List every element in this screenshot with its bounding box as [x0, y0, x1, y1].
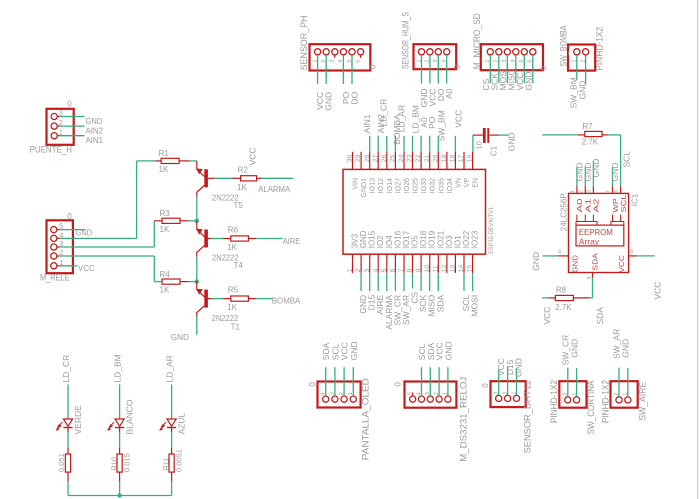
node B junction	[195, 279, 199, 283]
pin 6 IC1 stub	[620, 187, 622, 194]
wire ESP32 bottom SCK	[420, 273, 422, 291]
pin 16 ESP32 top stub	[472, 152, 474, 170]
wire M_DS3231_RELOJ VCC	[438, 367, 440, 396]
svg-text:2: 2	[579, 190, 585, 193]
svg-text:0: 0	[308, 382, 317, 387]
wire SENSOR_HUM_S A0	[446, 55, 448, 84]
svg-text:VCC: VCC	[454, 110, 464, 128]
svg-text:SCL: SCL	[619, 195, 628, 213]
lead LED BLANCO	[119, 428, 121, 433]
svg-text:PINHD-1X2: PINHD-1X2	[601, 380, 611, 423]
pin 15 ESP32 bottom stub	[472, 254, 474, 273]
svg-text:M_DS3231_RELOJ: M_DS3231_RELOJ	[458, 377, 468, 462]
svg-text:PINHD-1X2: PINHD-1X2	[595, 27, 605, 71]
lead resistor VERDE	[67, 472, 69, 482]
svg-text:SDA: SDA	[435, 294, 445, 312]
wire IC1 pin5 SDA	[592, 278, 594, 298]
pin lead SCL IC1	[620, 215, 622, 222]
svg-text:IO27: IO27	[395, 178, 402, 193]
wire IC1 pin8 VCC	[637, 255, 655, 257]
wire SW_BOMBA pin1	[576, 55, 578, 80]
wire ESP32 bottom SW_CR	[394, 273, 396, 291]
connector SW_CORTINA	[559, 381, 586, 408]
svg-text:1K: 1K	[160, 225, 170, 234]
pin lead A2 IC1	[592, 215, 594, 222]
resistor R10	[117, 454, 122, 472]
svg-text:2N2222: 2N2222	[212, 314, 239, 323]
lead resistor BLANCO	[119, 472, 121, 482]
svg-text:T4: T4	[234, 261, 244, 270]
wire to R7	[542, 134, 578, 136]
svg-text:PUENTE_H: PUENTE_H	[30, 145, 73, 155]
wire R7 to SCL corner	[608, 134, 621, 136]
wire GND IC1 pin 3	[592, 161, 594, 187]
pin 26 ESP32 top stub	[386, 152, 388, 170]
wire T1 emitter to GND	[196, 317, 198, 335]
pin lead WP IC1	[612, 215, 614, 222]
wire ESP32 bottom ALARMA	[386, 273, 388, 291]
resistor R6	[223, 238, 231, 240]
wire R3 to node	[189, 220, 197, 222]
transistor T1	[204, 290, 208, 308]
svg-text:GND: GND	[621, 339, 631, 358]
svg-text:SW_BOMBA: SW_BOMBA	[559, 25, 569, 66]
wire M_RELE pin2 down to R4	[153, 256, 155, 282]
svg-text:0: 0	[67, 212, 72, 221]
pin lead A1 IC1	[584, 215, 586, 222]
wire GND IC1 pin 1	[576, 167, 578, 187]
svg-text:VIN: VIN	[353, 178, 360, 190]
resistor R11	[169, 454, 174, 472]
wire SW_BOMBA pin2	[585, 55, 587, 84]
pin 18 ESP32 top stub	[454, 152, 456, 170]
eeprom inner box	[576, 225, 624, 246]
svg-text:BLANCO: BLANCO	[125, 399, 135, 434]
wire to R1	[137, 160, 156, 162]
wire SW_AIRE pin2	[618, 368, 620, 397]
svg-text:A2: A2	[592, 199, 601, 213]
svg-text:14: 14	[458, 265, 465, 273]
pin 7 ESP32 bottom stub	[403, 254, 405, 273]
connector SENSOR_PH	[310, 44, 371, 70]
pin 3 IC1 stub	[592, 187, 594, 194]
wire M_MICRO_SD CS	[489, 55, 491, 83]
node A junction	[195, 219, 199, 223]
svg-text:SENSOR_PH: SENSOR_PH	[299, 16, 309, 71]
svg-text:EEPROM: EEPROM	[579, 227, 613, 237]
svg-text:26: 26	[381, 154, 388, 162]
connector PANTALLA_OLED	[318, 382, 361, 408]
svg-text:LD_BM: LD_BM	[113, 354, 123, 382]
wire ESP32 top LD_CR	[386, 136, 388, 152]
svg-text:C1: C1	[490, 145, 499, 156]
svg-text:AIRE: AIRE	[283, 236, 301, 246]
svg-text:IO35: IO35	[438, 178, 445, 193]
svg-text:29: 29	[355, 154, 362, 162]
svg-text:GND: GND	[610, 163, 620, 182]
pin 3 ESP32 bottom stub	[369, 254, 371, 273]
svg-text:M_RELE: M_RELE	[40, 273, 70, 283]
svg-text:22: 22	[415, 154, 422, 162]
svg-text:0.051: 0.051	[57, 453, 66, 472]
svg-text:IO33: IO33	[421, 178, 428, 193]
ic IC1 24LC256P box	[569, 193, 629, 272]
wire M_RELE pin4 up to R1	[136, 161, 138, 239]
junction LED common	[117, 493, 121, 497]
resistor R3	[154, 220, 162, 222]
svg-text:IO25: IO25	[413, 178, 420, 193]
pin 12 ESP32 bottom stub	[446, 254, 448, 273]
wire T4 base	[211, 238, 223, 240]
svg-text:IO32: IO32	[430, 178, 437, 193]
svg-text:SDA: SDA	[595, 307, 605, 325]
pin 8 ESP32 bottom stub	[412, 254, 414, 273]
svg-text:AZUL: AZUL	[177, 413, 187, 435]
svg-text:0: 0	[481, 383, 490, 388]
wire SENSOR_PH DO	[351, 55, 353, 84]
wire ESP32 bottom D15	[369, 273, 371, 291]
svg-text:MOSI: MOSI	[470, 295, 480, 317]
wire T5 base	[215, 177, 233, 179]
wire to R8	[542, 297, 548, 299]
wire R4 to node	[189, 281, 197, 283]
svg-text:IO34: IO34	[447, 178, 454, 193]
pin 20 ESP32 top stub	[437, 152, 439, 170]
wire M_RELE pin1	[60, 265, 77, 267]
pin 2 ESP32 bottom stub	[360, 254, 362, 273]
svg-text:SW_AIRE: SW_AIRE	[638, 382, 648, 421]
resistor R7	[578, 134, 585, 136]
svg-text:27: 27	[372, 154, 379, 162]
svg-text:7: 7	[398, 268, 405, 272]
svg-text:6: 6	[614, 190, 620, 193]
wire ESP32 bottom AIRE	[377, 273, 379, 291]
svg-text:AIN2: AIN2	[86, 126, 104, 136]
svg-text:GND: GND	[523, 72, 533, 91]
wire ESP32 bottom SCL	[463, 273, 465, 291]
svg-text:3: 3	[364, 268, 371, 272]
resistor R8	[548, 297, 555, 299]
wire PUENTE_H pin1	[60, 135, 85, 137]
svg-text:GND: GND	[514, 358, 524, 377]
wire SENSOR_PH PO	[342, 55, 344, 84]
svg-text:Array: Array	[579, 237, 600, 247]
svg-text:24: 24	[398, 154, 405, 162]
svg-text:LD_CR: LD_CR	[379, 99, 389, 127]
pin 13 ESP32 bottom stub	[454, 254, 456, 273]
module U1 ESP32 box	[343, 169, 486, 254]
pin 5 IC1 stub	[592, 273, 594, 278]
wire SENSOR_HUM_S DO	[437, 55, 439, 84]
wire SENSOR_HUM_S VCC	[429, 55, 431, 84]
wire PANTALLA_OLED VCC	[343, 367, 345, 396]
svg-text:3: 3	[587, 190, 593, 193]
svg-text:ALARMA: ALARMA	[258, 184, 290, 194]
svg-text:18: 18	[450, 154, 457, 162]
wire AIRE	[256, 238, 283, 240]
wire SENSOR_DHT11 VCC	[498, 369, 500, 395]
pin 9 ESP32 bottom stub	[420, 254, 422, 273]
pin 1 ESP32 bottom stub	[352, 254, 354, 273]
lead resistor AZUL	[171, 472, 173, 482]
pin 5 ESP32 bottom stub	[386, 254, 388, 273]
svg-text:GND: GND	[577, 81, 587, 100]
wire R8 to SDA	[590, 297, 593, 299]
wire ESP32 top SW_BM	[437, 136, 439, 152]
svg-text:AIN1: AIN1	[362, 114, 372, 133]
svg-text:1K: 1K	[227, 303, 237, 312]
wire SENSOR_DHT11 D15	[507, 367, 509, 396]
svg-text:SENSOR_HUM_S: SENSOR_HUM_S	[400, 12, 410, 69]
wire ESP32 top BOMBA	[394, 136, 396, 152]
svg-text:10: 10	[424, 265, 431, 273]
wire ESP32 top AIN2	[377, 136, 379, 152]
svg-text:SDA: SDA	[591, 253, 600, 271]
pin 10 ESP32 bottom stub	[429, 254, 431, 273]
pin 2 IC1 stub	[584, 187, 586, 194]
pin 24 ESP32 top stub	[403, 152, 405, 170]
wire M_DS3231_RELOJ GND	[447, 367, 449, 396]
wire T5 emitter to node A	[196, 197, 198, 221]
svg-text:R3: R3	[160, 209, 171, 218]
svg-text:VCC: VCC	[78, 263, 95, 273]
connector SENSOR_DHT11	[491, 381, 526, 407]
svg-text:1: 1	[347, 268, 354, 272]
sheet frame right border	[697, 0, 699, 499]
pin 23 ESP32 top stub	[412, 152, 414, 170]
svg-text:A0: A0	[444, 88, 454, 99]
svg-text:VCC: VCC	[247, 147, 257, 165]
svg-text:15: 15	[467, 265, 474, 273]
svg-text:GND: GND	[591, 159, 601, 178]
svg-text:LD_AR: LD_AR	[165, 355, 175, 382]
pin 7 IC1 stub	[612, 187, 614, 194]
svg-text:R7: R7	[582, 122, 593, 131]
svg-text:19: 19	[441, 154, 448, 162]
lead LED AZUL	[171, 428, 173, 433]
svg-text:11: 11	[432, 265, 439, 272]
svg-text:R5: R5	[228, 286, 239, 295]
svg-text:SENSOR_DHT11: SENSOR_DHT11	[523, 380, 533, 453]
svg-text:5: 5	[381, 268, 388, 272]
wire ESP32 top LD_AR	[403, 136, 405, 152]
pin 1 IC1 stub	[576, 187, 578, 194]
capacitor C1	[473, 134, 483, 136]
resistor R2	[232, 177, 240, 179]
svg-text:8: 8	[630, 250, 633, 256]
pin 30 ESP32 top stub	[352, 152, 354, 170]
svg-text:2.7K: 2.7K	[555, 303, 572, 312]
wire R1 to T5	[189, 160, 196, 162]
pin 21 ESP32 top stub	[429, 152, 431, 170]
connector SW_AIRE	[611, 381, 638, 408]
wire M_RELE pin3 up to R3	[153, 221, 155, 247]
svg-text:1K: 1K	[159, 165, 169, 174]
lead LED VERDE	[67, 428, 69, 433]
svg-text:GND: GND	[570, 254, 579, 272]
svg-text:AIN1: AIN1	[86, 135, 104, 145]
transistor T4	[204, 230, 208, 248]
svg-text:1K: 1K	[160, 286, 170, 295]
wire LD_AR to LED	[171, 384, 173, 419]
wire SW_CORTINA pin2	[567, 368, 569, 397]
resistor R5	[223, 298, 231, 300]
svg-text:VERDE: VERDE	[73, 405, 83, 435]
svg-text:GND: GND	[349, 341, 359, 360]
wire M_DS3231_RELOJ SDA	[429, 367, 431, 396]
wire SW_CORTINA pin1	[576, 368, 578, 397]
svg-text:T5: T5	[234, 201, 244, 210]
wire ALARMA	[262, 177, 294, 179]
pin 29 ESP32 top stub	[360, 152, 362, 170]
svg-text:16: 16	[467, 154, 474, 162]
wire ESP32 top AIN1	[369, 136, 371, 152]
wire T1 base	[211, 298, 223, 300]
svg-text:GND: GND	[324, 92, 334, 111]
svg-text:VCC: VCC	[617, 254, 626, 272]
wire PUENTE_H pin3	[60, 116, 85, 118]
wire BOMBA	[256, 298, 273, 300]
svg-text:2: 2	[355, 268, 362, 272]
svg-text:3: 3	[330, 60, 336, 63]
pin 17 ESP32 top stub	[463, 152, 465, 170]
svg-text:PINHD-1X2: PINHD-1X2	[549, 380, 559, 423]
svg-text:23: 23	[407, 154, 414, 162]
svg-text:R10: R10	[110, 457, 119, 471]
svg-text:1: 1	[570, 190, 576, 193]
svg-text:0: 0	[453, 64, 462, 69]
wire GND IC1 pin 7	[612, 167, 614, 187]
svg-text:1K: 1K	[237, 183, 247, 192]
wire ESP32 top PO	[429, 136, 431, 152]
svg-text:IC1: IC1	[631, 193, 640, 206]
svg-text:2.7K: 2.7K	[582, 138, 599, 147]
svg-text:6: 6	[390, 268, 397, 272]
pin 6 ESP32 bottom stub	[394, 254, 396, 273]
svg-text:LD_AR: LD_AR	[396, 105, 406, 132]
svg-text:R1: R1	[159, 149, 170, 158]
svg-text:IO13: IO13	[370, 178, 377, 193]
pin 4 IC1 stub	[558, 255, 569, 257]
svg-text:13: 13	[450, 265, 457, 273]
svg-text:SCL: SCL	[622, 151, 632, 168]
wire IC1 pin4 GND	[543, 255, 558, 257]
pin 25 ESP32 top stub	[394, 152, 396, 170]
svg-text:25: 25	[390, 154, 397, 162]
svg-text:GND1: GND1	[361, 178, 368, 198]
svg-text:IO26: IO26	[404, 178, 411, 193]
wire SCL down to IC1	[620, 135, 622, 187]
svg-text:0: 0	[540, 66, 549, 71]
svg-text:4: 4	[558, 250, 561, 256]
svg-text:ESP32-DEVKITV1: ESP32-DEVKITV1	[488, 207, 495, 254]
pin lead A0 IC1	[576, 215, 578, 222]
svg-text:LD_CR: LD_CR	[61, 355, 71, 383]
svg-text:17: 17	[458, 154, 465, 162]
svg-text:GND: GND	[507, 132, 517, 151]
svg-text:0: 0	[67, 100, 72, 109]
wire M_MICRO_SD VCC	[523, 55, 525, 83]
wire C1 to GND	[499, 134, 509, 136]
wire M_MICRO_SD MISO	[515, 55, 517, 83]
wire LD_BM to LED	[119, 384, 121, 419]
wire PANTALLA_OLED SCL	[334, 367, 336, 396]
wire LD_CR to LED	[67, 384, 69, 419]
svg-text:9: 9	[415, 268, 422, 272]
resistor R4	[161, 281, 164, 283]
pin 4 ESP32 bottom stub	[377, 254, 379, 273]
wire SENSOR_HUM_S GND	[421, 55, 423, 84]
wire SENSOR_PH VCC	[317, 55, 319, 84]
wire SENSOR_DHT11 GND	[516, 368, 518, 396]
wire M_DS3231_RELOJ SCL	[421, 367, 423, 396]
wire M_MICRO_SD GND	[532, 55, 534, 83]
svg-text:GND: GND	[171, 332, 189, 342]
svg-text:0: 0	[368, 64, 377, 69]
svg-text:SW_BM: SW_BM	[436, 110, 446, 141]
svg-text:R6: R6	[228, 226, 239, 235]
resistor 0.051	[65, 454, 70, 472]
wire PANTALLA_OLED GND	[352, 367, 354, 396]
svg-text:VCC: VCC	[542, 307, 552, 325]
svg-text:6: 6	[355, 60, 361, 63]
svg-text:R2: R2	[238, 165, 249, 174]
pin 19 ESP32 top stub	[446, 152, 448, 170]
svg-text:BOMBA: BOMBA	[272, 296, 301, 306]
connector M_DS3231_RELOJ	[405, 382, 457, 408]
wire GND IC1 pin 2	[584, 167, 586, 187]
connector M_MICRO_SD	[481, 44, 543, 70]
svg-text:1K: 1K	[227, 243, 237, 252]
wire ESP32 bottom SDA	[437, 273, 439, 291]
wire ESP32 bottom MOSI	[472, 273, 474, 291]
svg-text:IO12: IO12	[378, 178, 385, 193]
wire SW_AIRE pin1	[627, 368, 629, 397]
svg-text:0.0051: 0.0051	[174, 449, 183, 472]
svg-text:M_MICRO_SD: M_MICRO_SD	[472, 13, 482, 69]
svg-text:0.015: 0.015	[122, 453, 131, 472]
svg-text:12: 12	[441, 265, 448, 273]
wire M_RELE pin5	[60, 229, 86, 231]
svg-text:5: 5	[408, 392, 414, 395]
wire T4 emitter to node B	[196, 257, 198, 282]
pin 8 IC1 stub	[629, 255, 637, 257]
svg-text:GND: GND	[76, 228, 93, 238]
wire PUENTE_H pin2	[60, 125, 85, 127]
wire M_RELE pin2	[60, 255, 155, 257]
svg-text:8: 8	[407, 268, 414, 272]
wire SENSOR_PH GND	[325, 55, 327, 84]
svg-text:IO23: IO23	[471, 230, 480, 248]
svg-text:28: 28	[364, 154, 371, 162]
wire to R4	[154, 281, 161, 283]
svg-text:7: 7	[606, 190, 612, 193]
svg-text:IO14: IO14	[387, 178, 394, 193]
svg-text:GND: GND	[86, 116, 103, 126]
svg-text:10: 10	[474, 141, 483, 149]
connector M_RELE	[47, 220, 73, 273]
svg-text:R4: R4	[160, 270, 171, 279]
svg-text:24LC256P: 24LC256P	[560, 193, 569, 231]
wire M_RELE pin3	[60, 246, 155, 248]
pin 11 ESP32 bottom stub	[437, 254, 439, 273]
svg-text:20: 20	[432, 154, 439, 162]
pin 14 ESP32 bottom stub	[463, 254, 465, 273]
svg-text:PANTALLA_OLED: PANTALLA_OLED	[360, 378, 370, 460]
wire ESP32 bottom GND	[360, 273, 362, 291]
LED AZUL	[167, 419, 176, 426]
wire ESP32 bottom SW_AR	[403, 273, 405, 291]
